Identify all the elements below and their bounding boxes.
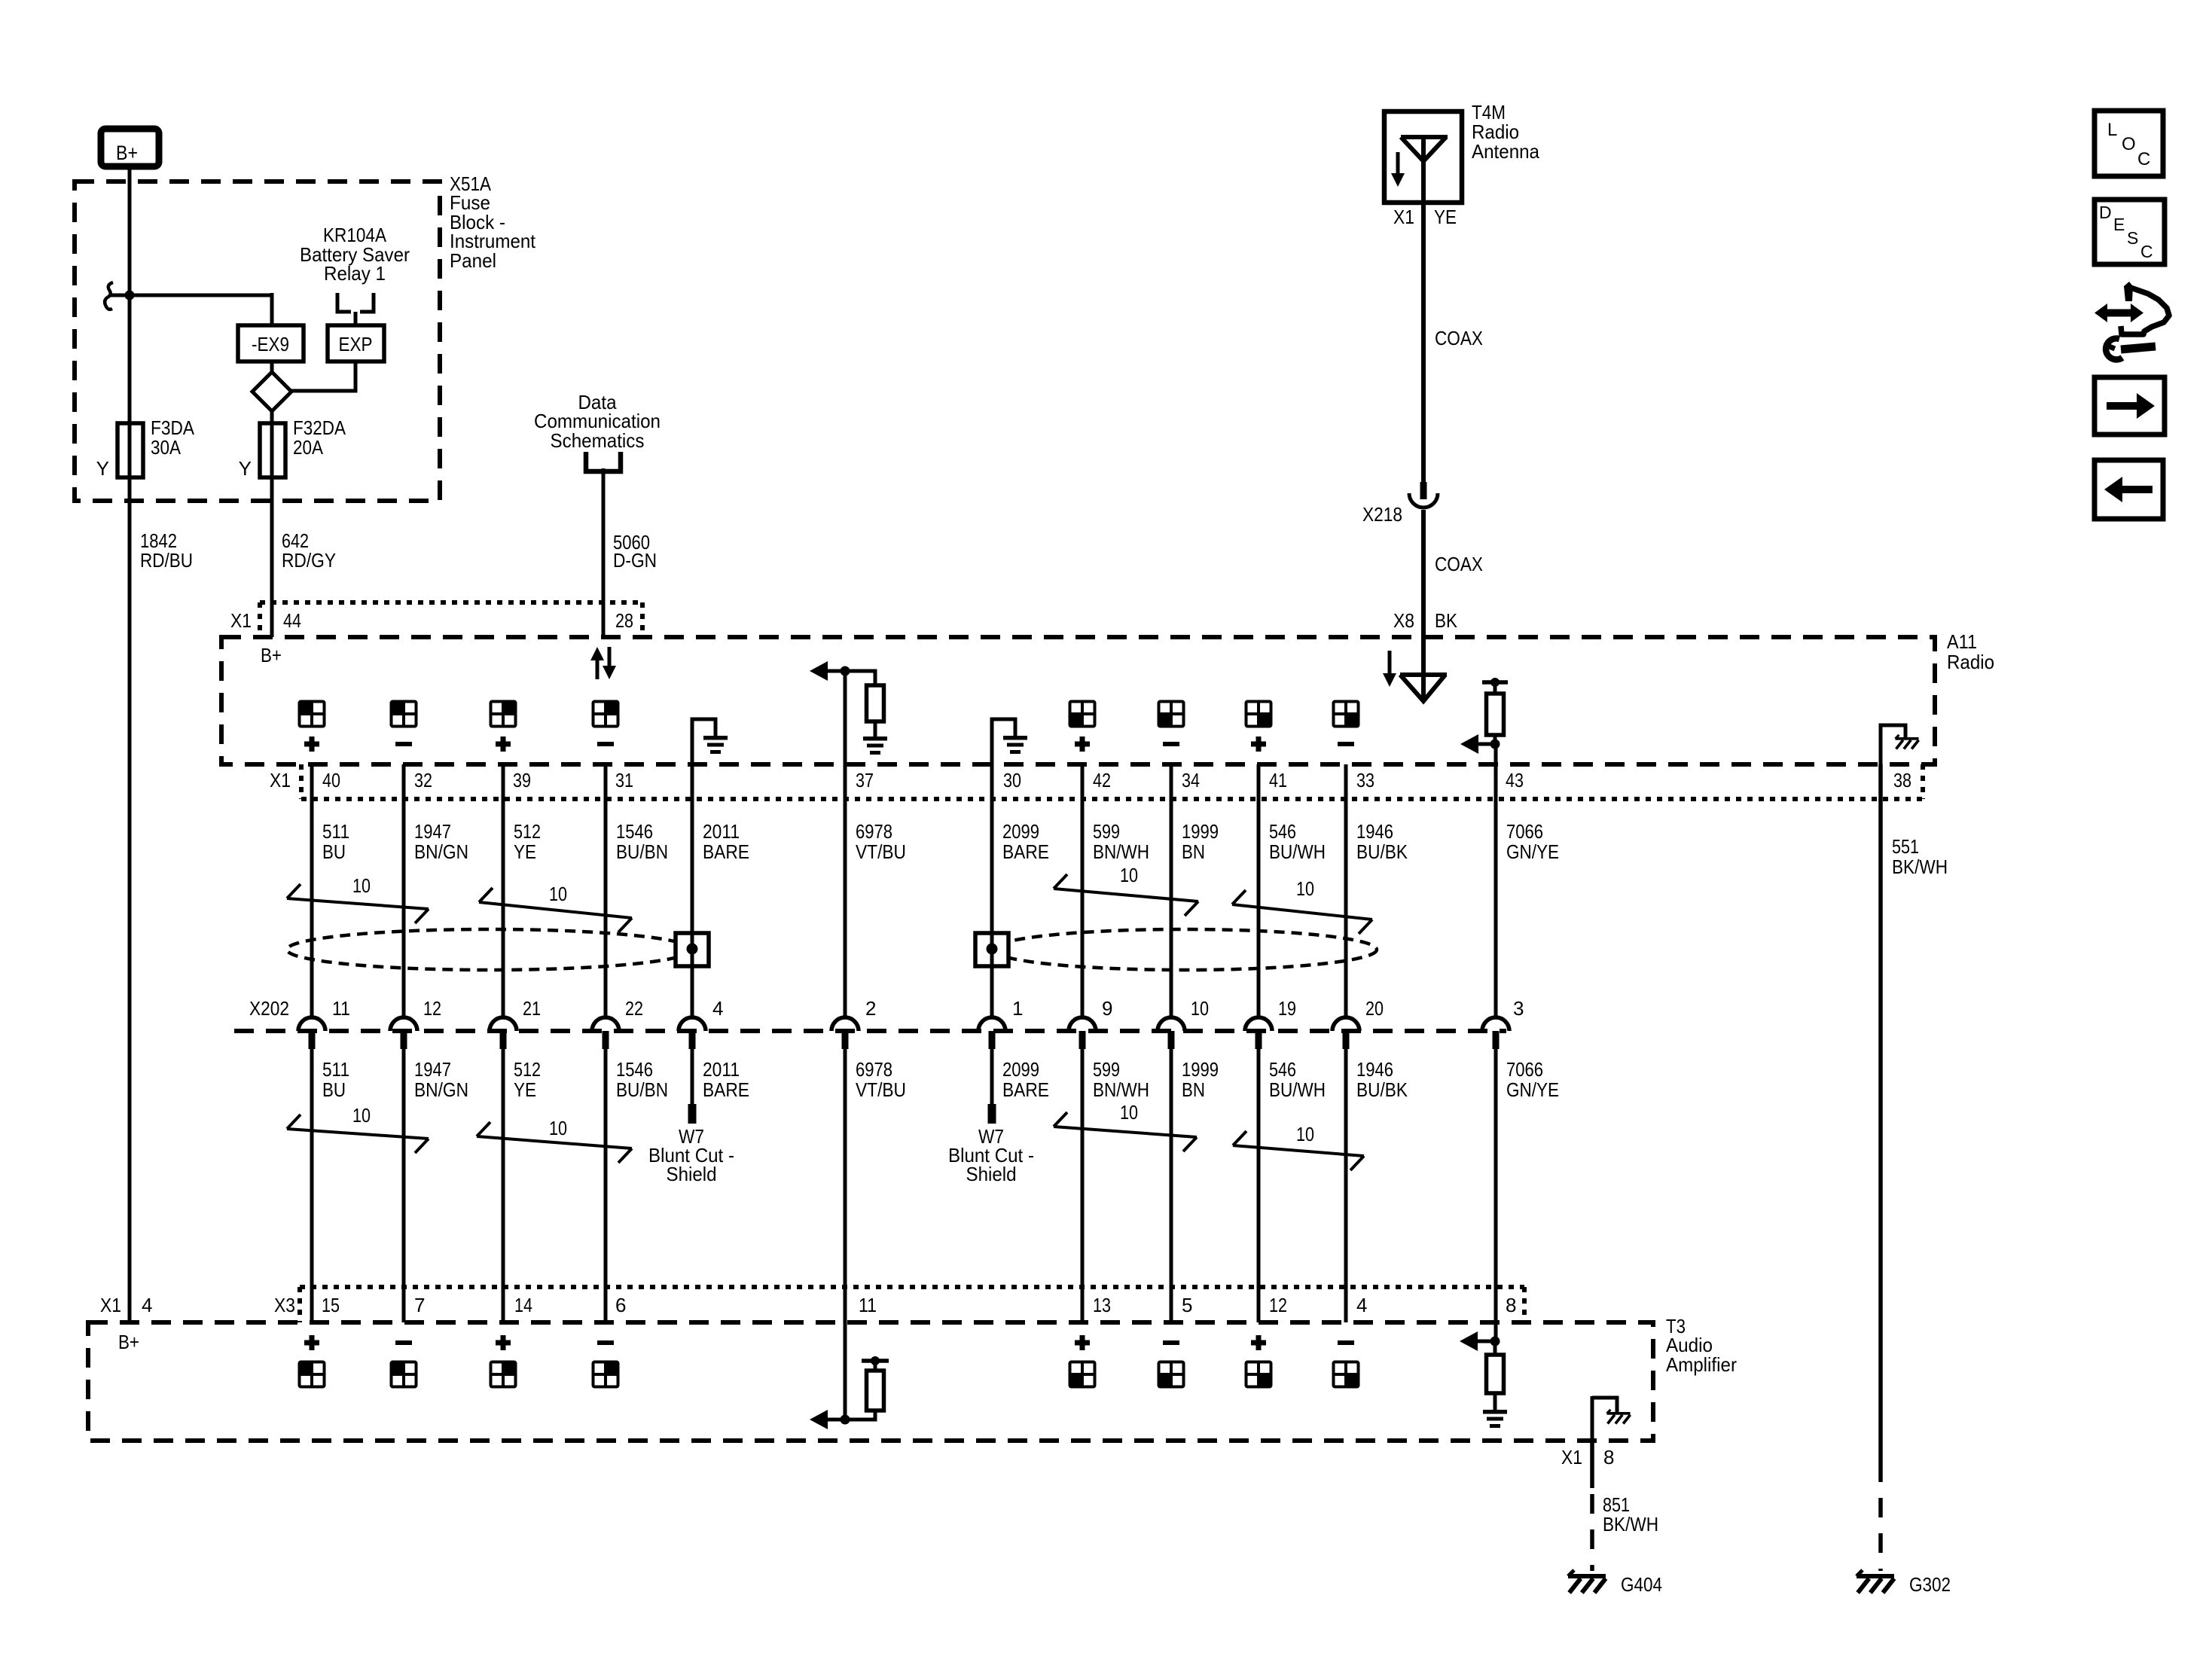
svg-text:43: 43 — [1506, 769, 1524, 791]
svg-text:2099: 2099 — [1002, 820, 1039, 843]
coax wire antenna to X218 — [1421, 203, 1426, 484]
wire B+ feed vertical (into fuse F3DA) — [128, 169, 132, 423]
svg-text:10: 10 — [352, 874, 371, 897]
svg-text:10: 10 — [1296, 877, 1314, 900]
svg-text:B+: B+ — [116, 142, 138, 164]
wire 512 YE (X202 down) — [502, 1049, 505, 1322]
icon box LOC — [2095, 111, 2163, 176]
twisted pair marker (599/1999 lower) — [1054, 1101, 1197, 1151]
svg-text:10: 10 — [1191, 997, 1209, 1020]
svg-text:1546: 1546 — [616, 1058, 653, 1081]
svg-text:1999: 1999 — [1182, 1058, 1219, 1081]
svg-text:BU: BU — [322, 840, 346, 863]
svg-text:GN/YE: GN/YE — [1506, 840, 1559, 863]
label 599 BN/WH (lower) — [1093, 1058, 1149, 1101]
svg-text:10: 10 — [1120, 864, 1138, 886]
splice junction S (B+ branch) — [105, 282, 134, 310]
radio speaker output symbol RF speaker + (512) — [491, 702, 516, 752]
twisted pair marker (599/1999 upper) — [1054, 864, 1198, 916]
amplifier T3 dashed box — [88, 1322, 1653, 1441]
svg-text:-EX9: -EX9 — [252, 333, 289, 355]
wire 599 BN/WH (X202 down) — [1081, 1049, 1085, 1322]
svg-text:9: 9 — [1102, 997, 1112, 1020]
svg-text:28: 28 — [615, 609, 633, 632]
label 1946 BU/BK (upper) — [1356, 820, 1408, 863]
svg-text:C: C — [2140, 242, 2153, 261]
label 512 YE (lower) — [514, 1058, 541, 1101]
svg-text:BARE: BARE — [703, 1078, 749, 1101]
off-page connector bracket (data communication) — [586, 452, 621, 471]
svg-text:6: 6 — [615, 1294, 626, 1316]
svg-text:599: 599 — [1093, 1058, 1120, 1081]
svg-text:BU/BN: BU/BN — [616, 1078, 668, 1101]
relay KR104A Battery Saver Relay 1 label — [300, 224, 410, 285]
X202 terminal arc+pin on 1946 BU/BK — [1332, 1017, 1359, 1049]
X202 terminal arc+pin on 2099 BARE — [978, 1017, 1005, 1049]
svg-text:551: 551 — [1892, 835, 1919, 858]
antenna T4M box — [1384, 111, 1462, 203]
svg-text:30: 30 — [1003, 769, 1021, 791]
radio speaker output symbol LR speaker - (1999) — [1159, 702, 1184, 747]
svg-text:X218: X218 — [1362, 503, 1402, 526]
svg-text:31: 31 — [615, 769, 633, 791]
svg-text:BU/WH: BU/WH — [1269, 1078, 1326, 1101]
wire 1947 BN/GN (X202 down) — [402, 1049, 406, 1322]
fuse F32DA 20A — [239, 416, 346, 480]
svg-text:42: 42 — [1093, 769, 1111, 791]
wire 6978 VT/BU (radio to X202) — [844, 671, 847, 1017]
wire 7066 GN/YE (X202 down) — [1494, 1049, 1498, 1322]
svg-text:BU/BK: BU/BK — [1356, 1078, 1408, 1101]
svg-text:4: 4 — [1356, 1294, 1367, 1316]
label COAX — [1435, 327, 1483, 349]
svg-text:BN: BN — [1182, 840, 1205, 863]
wire 512 YE (radio to X202) — [502, 764, 505, 1017]
label 1947 BN/GN (upper) — [414, 820, 468, 863]
twisted pair marker (546/1946 upper) — [1232, 877, 1372, 934]
connector X3 row (amplifier input pins) — [274, 1287, 1524, 1322]
svg-text:5: 5 — [1182, 1294, 1192, 1316]
radio speaker output symbol RR speaker + (546) — [1246, 702, 1271, 752]
svg-text:BARE: BARE — [1002, 1078, 1049, 1101]
chassis ground G302 — [1857, 1570, 1951, 1596]
wire 546 BU/WH (X202 down) — [1257, 1049, 1261, 1322]
shield termination square on 2099 — [975, 933, 1008, 966]
power symbol B+ battery feed — [101, 129, 159, 166]
pin label X8 / BK — [1393, 609, 1458, 632]
svg-text:44: 44 — [283, 609, 301, 632]
svg-text:11: 11 — [859, 1294, 877, 1316]
wire 2011 BARE (X202 down) — [688, 1049, 697, 1124]
label 2099 BARE (upper) — [1002, 820, 1049, 863]
wire 1842 RD/BU (fuse F3DA to T3 pin X1-4) — [128, 477, 132, 1322]
svg-text:D: D — [2099, 203, 2112, 222]
ground hook + earth ground on drain wire 2099 inside radio — [992, 719, 1027, 764]
svg-text:41: 41 — [1269, 769, 1287, 791]
radio speaker output symbol LF speaker - (1947) — [392, 702, 416, 747]
svg-text:BN/WH: BN/WH — [1093, 840, 1149, 863]
label 546 BU/WH (lower) — [1269, 1058, 1326, 1101]
amplifier speaker output symbol LF speaker + (511) — [300, 1335, 325, 1387]
wire 546 BU/WH (radio to X202) — [1257, 764, 1261, 1017]
svg-text:1546: 1546 — [616, 820, 653, 843]
svg-text:YE: YE — [1434, 206, 1457, 228]
amplifier internal resistor + T-bar (wire 6978) — [845, 1356, 889, 1420]
inline connector X218 — [1362, 482, 1438, 526]
X202 terminal arc+pin on 6978 VT/BU — [831, 1017, 859, 1049]
label 851 BK/WH — [1603, 1493, 1658, 1536]
svg-text:512: 512 — [514, 1058, 541, 1081]
wire diamond to fuse F32DA — [270, 411, 274, 423]
label 511 BU (upper) — [322, 820, 349, 863]
twisted pair marker (511/1947 upper) — [287, 874, 429, 923]
svg-text:13: 13 — [1093, 1294, 1111, 1316]
svg-text:BU/WH: BU/WH — [1269, 840, 1326, 863]
pin label X1 / YE — [1393, 206, 1457, 228]
svg-text:4: 4 — [712, 997, 723, 1020]
relay coil box EXP — [328, 325, 384, 361]
antenna symbol inside T4M — [1401, 137, 1448, 203]
label 599 BN/WH (upper) — [1093, 820, 1149, 863]
svg-text:VT/BU: VT/BU — [856, 1078, 906, 1101]
shield ellipse (rear speakers, drain 2099) — [993, 929, 1377, 970]
svg-text:B+: B+ — [261, 644, 282, 666]
amplifier speaker output symbol RR speaker - (1946) — [1334, 1340, 1359, 1387]
svg-text:Y: Y — [96, 457, 109, 480]
svg-text:33: 33 — [1356, 769, 1374, 791]
svg-text:COAX: COAX — [1435, 327, 1483, 349]
svg-text:C: C — [2137, 149, 2150, 169]
svg-text:30A: 30A — [151, 436, 182, 459]
svg-text:15: 15 — [322, 1294, 340, 1316]
wire 599 BN/WH (radio to X202) — [1081, 764, 1085, 1017]
radio A11 dashed box — [221, 637, 1935, 764]
svg-text:X1: X1 — [270, 769, 291, 791]
icon harness routing (double arrow, connector outline, wrench) — [2095, 282, 2169, 359]
svg-text:38: 38 — [1893, 769, 1911, 791]
svg-text:546: 546 — [1269, 820, 1296, 843]
label T4M Radio Antenna — [1472, 101, 1539, 163]
down arrow at radio antenna input — [1383, 651, 1396, 687]
svg-text:S: S — [2127, 228, 2138, 248]
label 1947 BN/GN (lower) — [414, 1058, 468, 1101]
label 1946 BU/BK (lower) — [1356, 1058, 1408, 1101]
svg-text:Antenna: Antenna — [1472, 140, 1539, 163]
label 1999 BN (upper) — [1182, 820, 1219, 863]
svg-text:1947: 1947 — [414, 820, 451, 843]
svg-text:546: 546 — [1269, 1058, 1296, 1081]
svg-text:Relay 1: Relay 1 — [324, 262, 386, 285]
svg-text:11: 11 — [332, 997, 350, 1020]
wire 1946 BU/BK (X202 down) — [1344, 1049, 1348, 1322]
svg-text:3: 3 — [1513, 997, 1524, 1020]
pin label X1 / 4 (amplifier B+ input) — [100, 1294, 152, 1316]
svg-text:20: 20 — [1365, 997, 1384, 1020]
label 2011 BARE (lower) — [703, 1058, 749, 1101]
label 1999 BN (lower) — [1182, 1058, 1219, 1101]
svg-text:X1: X1 — [100, 1294, 121, 1316]
wire 511 BU (radio to X202) — [310, 764, 314, 1017]
svg-text:G302: G302 — [1909, 1573, 1951, 1596]
wire 511 BU (X202 down) — [310, 1049, 314, 1322]
svg-text:A11: A11 — [1947, 630, 1977, 653]
diamond splice node — [252, 372, 291, 411]
icon box arrow left — [2095, 460, 2163, 519]
label 7066 GN/YE (lower) — [1506, 1058, 1559, 1101]
relay coil bracket above EXP — [337, 293, 374, 325]
svg-text:Panel: Panel — [450, 249, 496, 272]
label 2011 BARE (upper) — [703, 820, 749, 863]
blunt cut W7 label (2011 shield) — [648, 1125, 734, 1185]
wire EXP to diamond — [291, 361, 355, 391]
label 642 RD/GY — [282, 529, 336, 572]
node B+ inside radio — [261, 644, 282, 666]
radio speaker output symbol LF speaker + (511) — [300, 702, 325, 752]
svg-text:12: 12 — [1269, 1294, 1287, 1316]
label 6978 VT/BU (lower) — [856, 1058, 906, 1101]
svg-text:511: 511 — [322, 1058, 349, 1081]
svg-text:Shield: Shield — [966, 1163, 1017, 1185]
svg-text:X1: X1 — [1561, 1446, 1582, 1468]
label 6978 VT/BU (upper) — [856, 820, 906, 863]
svg-text:B+: B+ — [118, 1331, 139, 1353]
label T3 Audio Amplifier — [1666, 1315, 1737, 1376]
label Data Communication Schematics — [534, 391, 661, 452]
svg-text:D-GN: D-GN — [613, 549, 657, 572]
svg-text:10: 10 — [549, 883, 567, 905]
svg-text:RD/GY: RD/GY — [282, 549, 336, 572]
svg-text:10: 10 — [352, 1104, 371, 1127]
amplifier speaker output symbol LF speaker - (1947) — [392, 1340, 416, 1387]
svg-text:10: 10 — [1120, 1101, 1138, 1124]
ground hook + earth ground on drain wire 2011 inside radio — [692, 719, 728, 764]
amplifier speaker output symbol LR speaker - (1999) — [1159, 1340, 1184, 1387]
label A11 Radio — [1947, 630, 1994, 673]
svg-text:Radio: Radio — [1947, 651, 1994, 673]
twisted pair marker (511/1947 lower) — [287, 1104, 429, 1153]
label 1546 BU/BN (lower) — [616, 1058, 668, 1101]
svg-text:BK: BK — [1435, 609, 1458, 632]
connector X202 row — [234, 997, 1524, 1031]
svg-text:1946: 1946 — [1356, 820, 1393, 843]
svg-text:RD/BU: RD/BU — [140, 549, 193, 572]
svg-text:22: 22 — [625, 997, 643, 1020]
svg-text:511: 511 — [322, 820, 349, 843]
svg-text:BK/WH: BK/WH — [1892, 855, 1948, 878]
svg-text:BK/WH: BK/WH — [1603, 1513, 1658, 1536]
wire 642 RD/GY (fuse F32DA to radio pin X1-44) — [270, 477, 274, 637]
relay contact box -EX9 — [238, 325, 304, 361]
radio speaker output symbol RR speaker - (1946) — [1334, 702, 1359, 747]
svg-text:10: 10 — [549, 1117, 567, 1139]
wire 5060 D-GN to radio pin X1-28 — [602, 468, 606, 637]
svg-text:BN/GN: BN/GN — [414, 1078, 468, 1101]
svg-text:2011: 2011 — [703, 1058, 740, 1081]
svg-text:EXP: EXP — [339, 333, 373, 355]
chassis ground G404 — [1568, 1570, 1662, 1596]
svg-text:2099: 2099 — [1002, 1058, 1039, 1081]
wire 851 BK/WH to G404 — [1590, 1441, 1594, 1571]
label 5060 D-GN — [613, 531, 657, 572]
svg-text:Schematics: Schematics — [551, 429, 645, 452]
bidirectional data arrows at pin 28 — [590, 647, 616, 679]
svg-text:BU: BU — [322, 1078, 346, 1101]
svg-text:2: 2 — [865, 997, 876, 1020]
svg-text:YE: YE — [514, 840, 536, 863]
svg-text:21: 21 — [523, 997, 541, 1020]
wire splice to relay -EX9 — [109, 293, 272, 325]
coax wire X218 to radio — [1421, 510, 1426, 637]
radio internal resistor to ground (wire 6978) — [845, 671, 887, 755]
amplifier internal: arrow + resistor + earth ground (wire 7066) — [1460, 1322, 1507, 1428]
twisted pair marker (512/1546 lower) — [477, 1117, 632, 1163]
radio antenna input symbol (triangle) — [1400, 637, 1447, 701]
X202 terminal arc+pin on 546 BU/WH — [1245, 1017, 1272, 1049]
node B+ inside amplifier — [118, 1331, 139, 1353]
svg-text:7066: 7066 — [1506, 820, 1543, 843]
label 7066 GN/YE (upper) — [1506, 820, 1559, 863]
X202 terminal arc+pin on 1546 BU/BN — [592, 1017, 619, 1049]
svg-text:Y: Y — [239, 457, 252, 480]
svg-text:X1: X1 — [1393, 206, 1414, 228]
connector X1 top row (radio, pins 44 / 28) — [230, 602, 642, 637]
blunt cut W7 label (2099 shield) — [948, 1125, 1034, 1185]
svg-text:34: 34 — [1182, 769, 1200, 791]
amplifier speaker output symbol RR speaker + (546) — [1246, 1335, 1271, 1387]
radio internal: arrow + junction on wire 6978 — [810, 661, 850, 681]
wire 1546 BU/BN (X202 down) — [604, 1049, 608, 1322]
shield ellipse (front speakers, drain 2011) — [287, 929, 692, 970]
amplifier internal: arrow + junction on wire 6978 — [810, 1322, 850, 1429]
wire 551 BK/WH (radio pin 38 to G302) — [1878, 764, 1883, 1571]
label X51A Fuse Block - Instrument Panel — [450, 172, 536, 272]
svg-text:599: 599 — [1093, 820, 1120, 843]
wire 1947 BN/GN (radio to X202) — [402, 764, 406, 1017]
svg-text:YE: YE — [514, 1078, 536, 1101]
svg-text:10: 10 — [1296, 1123, 1314, 1145]
wire -EX9 to diamond node — [270, 361, 274, 374]
down arrow inside T4M — [1391, 152, 1405, 187]
svg-text:BN: BN — [1182, 1078, 1205, 1101]
fuse F3DA 30A — [96, 416, 195, 480]
wire 6978 VT/BU (X202 down) — [844, 1049, 847, 1322]
svg-text:6978: 6978 — [856, 820, 892, 843]
svg-text:2011: 2011 — [703, 820, 740, 843]
svg-text:X202: X202 — [249, 997, 289, 1020]
svg-text:Amplifier: Amplifier — [1666, 1353, 1737, 1376]
radio speaker output symbol LR speaker + (599) — [1070, 702, 1095, 752]
svg-text:4: 4 — [142, 1294, 152, 1316]
wire 7066 GN/YE (radio to X202) — [1494, 744, 1498, 1017]
wire 2011 BARE (radio to X202) — [691, 764, 694, 1017]
svg-text:14: 14 — [514, 1294, 532, 1316]
fuse block X51A dashed box — [75, 181, 440, 501]
svg-text:VT/BU: VT/BU — [856, 840, 906, 863]
svg-text:COAX: COAX — [1435, 553, 1483, 575]
X202 terminal arc+pin on 512 YE — [490, 1017, 517, 1049]
svg-text:12: 12 — [423, 997, 441, 1020]
X202 terminal arc+pin on 599 BN/WH — [1069, 1017, 1096, 1049]
svg-text:GN/YE: GN/YE — [1506, 1078, 1559, 1101]
svg-text:Shield: Shield — [667, 1163, 717, 1185]
X202 terminal arc+pin on 511 BU — [298, 1017, 325, 1049]
svg-text:1: 1 — [1012, 997, 1023, 1020]
label 511 BU (lower) — [322, 1058, 349, 1101]
svg-text:1947: 1947 — [414, 1058, 451, 1081]
svg-text:E: E — [2113, 215, 2125, 234]
connector X1 bottom row (radio output pins) — [270, 764, 1923, 799]
ground hook + chassis ground X1-8 (851) inside amplifier — [1592, 1396, 1631, 1441]
svg-text:O: O — [2122, 134, 2136, 154]
label COAX — [1435, 553, 1483, 575]
svg-text:BARE: BARE — [1002, 840, 1049, 863]
radio internal: T-bar + resistor + arrow on wire 7066 — [1460, 678, 1508, 754]
radio speaker output symbol RF speaker - (1546) — [593, 702, 618, 747]
label 1546 BU/BN (upper) — [616, 820, 668, 863]
label 546 BU/WH (upper) — [1269, 820, 1326, 863]
svg-text:512: 512 — [514, 820, 541, 843]
X202 terminal arc+pin on 2011 BARE — [679, 1017, 706, 1049]
svg-text:BN/GN: BN/GN — [414, 840, 468, 863]
shield termination square on 2011 — [676, 933, 709, 966]
X202 terminal arc+pin on 1947 BN/GN — [390, 1017, 417, 1049]
wire 1946 BU/BK (radio to X202) — [1344, 764, 1348, 1017]
icon box DESC — [2095, 200, 2165, 264]
twisted pair marker (546/1946 lower) — [1233, 1123, 1364, 1170]
svg-text:6978: 6978 — [856, 1058, 892, 1081]
svg-text:BU/BN: BU/BN — [616, 840, 668, 863]
svg-text:BN/WH: BN/WH — [1093, 1078, 1149, 1101]
label 1842 RD/BU — [140, 529, 193, 572]
label 551 BK/WH — [1892, 835, 1948, 878]
svg-text:BU/BK: BU/BK — [1356, 840, 1408, 863]
svg-text:G404: G404 — [1621, 1573, 1662, 1596]
wire 2099 BARE (X202 down) — [988, 1049, 996, 1124]
svg-text:19: 19 — [1278, 997, 1296, 1020]
svg-text:7: 7 — [414, 1294, 425, 1316]
svg-text:BARE: BARE — [703, 840, 749, 863]
svg-text:1946: 1946 — [1356, 1058, 1393, 1081]
wire 1999 BN (radio to X202) — [1170, 764, 1173, 1017]
svg-text:7066: 7066 — [1506, 1058, 1543, 1081]
svg-text:1999: 1999 — [1182, 820, 1219, 843]
svg-text:40: 40 — [322, 769, 340, 791]
amplifier speaker output symbol RF speaker - (1546) — [593, 1340, 618, 1387]
label 2099 BARE (lower) — [1002, 1058, 1049, 1101]
svg-text:X1: X1 — [230, 609, 252, 632]
svg-text:L: L — [2107, 120, 2117, 140]
icon box arrow right — [2095, 377, 2165, 435]
X202 terminal arc+pin on 1999 BN — [1158, 1017, 1185, 1049]
label 512 YE (upper) — [514, 820, 541, 863]
svg-text:X8: X8 — [1393, 609, 1414, 632]
svg-text:X3: X3 — [274, 1294, 295, 1316]
svg-text:37: 37 — [856, 769, 874, 791]
amplifier speaker output symbol RF speaker + (512) — [491, 1335, 516, 1387]
ground hook + chassis ground pin 38 (551) inside radio — [1881, 725, 1919, 764]
amplifier speaker output symbol LR speaker + (599) — [1070, 1335, 1095, 1387]
pin label X1 / 8 (amplifier ground) — [1561, 1446, 1614, 1468]
svg-text:39: 39 — [513, 769, 531, 791]
wire 2099 BARE (radio to X202) — [990, 764, 994, 1017]
svg-text:8: 8 — [1603, 1446, 1614, 1468]
X202 terminal arc+pin on 7066 GN/YE — [1482, 1017, 1509, 1049]
twisted pair marker (512/1546 upper) — [479, 883, 632, 932]
wire 1999 BN (X202 down) — [1170, 1049, 1173, 1322]
wire 1546 BU/BN (radio to X202) — [604, 764, 608, 1017]
svg-text:32: 32 — [414, 769, 432, 791]
svg-text:20A: 20A — [293, 436, 324, 459]
